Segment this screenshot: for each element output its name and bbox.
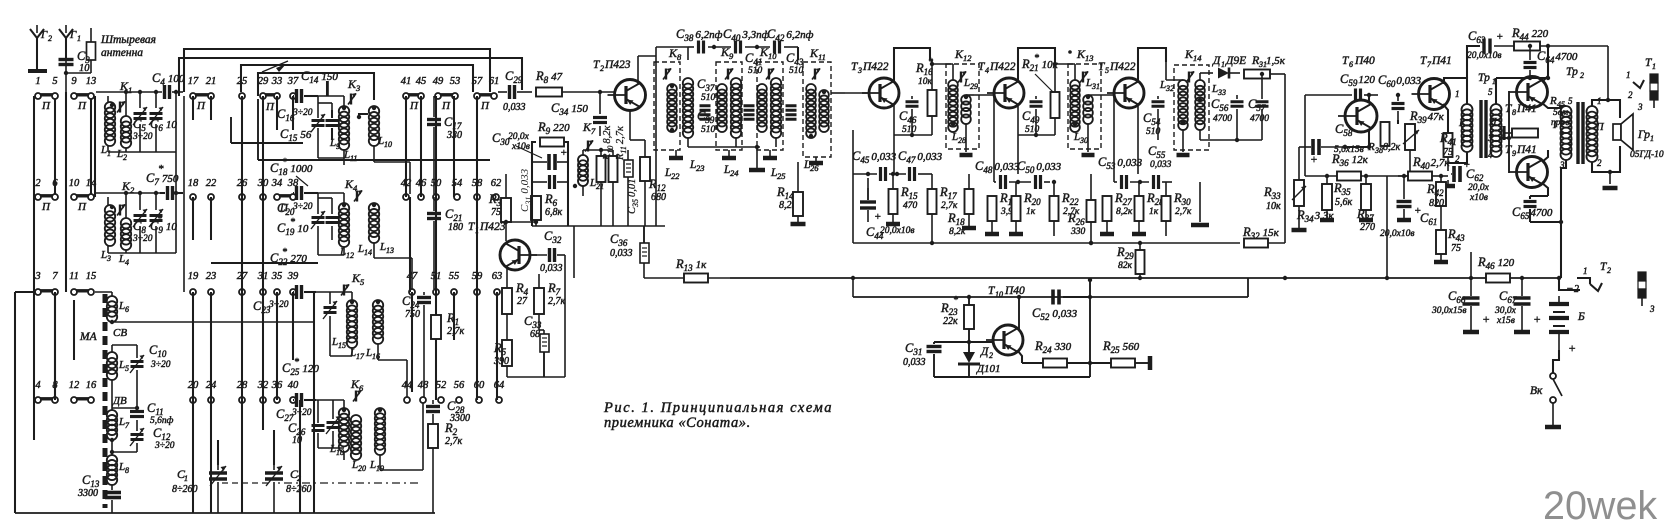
resistor R41 75 xyxy=(1443,104,1448,133)
svg-text:510: 510 xyxy=(902,125,917,135)
wire K3 block xyxy=(318,95,344,97)
wire T4 bottom xyxy=(1018,134,1055,136)
wire T10 base xyxy=(969,341,993,343)
resistor R5 390 xyxy=(502,340,512,366)
ground big right xyxy=(1199,182,1201,222)
svg-text:3÷20: 3÷20 xyxy=(268,300,289,310)
whip antenna symbol xyxy=(90,28,92,42)
transistor T5 P422 xyxy=(1114,78,1144,108)
wire T10 emitter row xyxy=(1018,351,1022,363)
capacitor C21 180 xyxy=(427,212,441,215)
svg-text:9: 9 xyxy=(1512,149,1516,158)
svg-text:C59120: C59120 xyxy=(1340,72,1375,88)
switch arrow K12 xyxy=(958,72,966,83)
transistor T7 P41 xyxy=(1419,79,1450,110)
coil L17 xyxy=(347,300,357,310)
resistor R12 680 xyxy=(640,157,650,181)
trimmer C12 3-20 xyxy=(131,433,144,436)
wire K4 block xyxy=(318,192,344,194)
coil L31 xyxy=(1070,80,1080,90)
wire T9 leads xyxy=(1542,150,1548,162)
svg-text:C910: C910 xyxy=(150,219,177,235)
svg-text:3: 3 xyxy=(857,66,862,75)
transistor T1 P423 xyxy=(500,240,530,270)
svg-text:C43: C43 xyxy=(786,51,804,67)
svg-text:*: * xyxy=(157,214,162,225)
svg-text:R9220: R9220 xyxy=(537,120,570,136)
wire T8 leads xyxy=(1531,77,1533,79)
coil L7 xyxy=(107,410,117,420)
svg-text:0,033: 0,033 xyxy=(503,102,526,113)
svg-text:30,0х15в: 30,0х15в xyxy=(1431,306,1466,316)
svg-text:82к: 82к xyxy=(1118,261,1133,271)
svg-text:2,7к: 2,7к xyxy=(1175,207,1192,217)
svg-text:7: 7 xyxy=(591,126,596,136)
svg-text:R131к: R131к xyxy=(675,257,707,273)
svg-text:Д: Д xyxy=(1212,55,1221,67)
svg-text:П423: П423 xyxy=(479,221,506,233)
svg-text:C17: C17 xyxy=(444,115,462,131)
svg-text:52: 52 xyxy=(436,380,447,391)
svg-text:C12: C12 xyxy=(153,426,171,442)
svg-text:C470,033: C470,033 xyxy=(898,149,943,165)
capacitor C4 100 xyxy=(96,91,162,93)
svg-text:64: 64 xyxy=(494,380,505,391)
svg-text:22: 22 xyxy=(206,178,217,189)
svg-text:10к: 10к xyxy=(918,77,933,87)
coil L12 xyxy=(339,203,349,213)
svg-text:39: 39 xyxy=(287,271,299,282)
svg-text:R44220: R44220 xyxy=(1511,26,1549,42)
rotated capacitor C31 0,033 xyxy=(519,168,533,212)
svg-text:750: 750 xyxy=(405,309,420,320)
svg-text:R2110к: R2110к xyxy=(1021,57,1059,73)
svg-text:Штыревая: Штыревая xyxy=(100,34,156,46)
svg-text:12: 12 xyxy=(963,53,972,63)
wire T3 collector box xyxy=(894,48,930,82)
wire AGC right vertical xyxy=(1089,280,1091,377)
wire C62 ground xyxy=(1441,184,1455,189)
svg-text:26: 26 xyxy=(810,163,819,173)
svg-text:5: 5 xyxy=(52,76,57,87)
svg-text:38: 38 xyxy=(1374,146,1383,155)
svg-text:R46120: R46120 xyxy=(1477,255,1515,271)
coil L29 xyxy=(948,80,958,90)
switch arrow K13 xyxy=(1080,72,1088,83)
svg-text:R112,7к: R112,7к xyxy=(615,126,628,161)
svg-text:C46: C46 xyxy=(899,109,917,125)
svg-text:П41: П41 xyxy=(1516,144,1537,156)
capacitor C30b xyxy=(548,175,551,189)
wire T2 collector to filter xyxy=(655,47,657,56)
trimmer C10 3-20 xyxy=(131,360,144,363)
svg-text:1,5к: 1,5к xyxy=(1266,55,1286,67)
wire AGC bottom xyxy=(934,376,1090,378)
wire secondary to speaker xyxy=(1592,100,1620,118)
resistor R38 8,2k xyxy=(1381,122,1390,146)
coil L21 xyxy=(578,155,588,165)
svg-text:5: 5 xyxy=(1568,96,1573,106)
svg-text:75: 75 xyxy=(1443,147,1453,158)
wires mid column xyxy=(600,150,602,156)
svg-text:Рис. 1. Принципиальная с: Рис. 1. Принципиальная схема xyxy=(603,400,833,416)
svg-text:4700: 4700 xyxy=(1250,114,1269,124)
capacitor C46 510 xyxy=(906,100,919,103)
wire T1 collector xyxy=(505,222,507,241)
wire col17 verticals xyxy=(192,292,194,513)
svg-text:3÷20: 3÷20 xyxy=(132,234,153,244)
transistor T6 P40 xyxy=(1345,100,1377,132)
svg-text:C520,033: C520,033 xyxy=(1032,306,1078,322)
wires T1 cluster xyxy=(506,221,536,223)
wire top frame 1 xyxy=(184,49,490,92)
svg-text:55: 55 xyxy=(449,271,460,282)
svg-text:17: 17 xyxy=(356,352,365,361)
svg-text:20,0х10в: 20,0х10в xyxy=(1380,229,1414,239)
wire Tp1 pin2 xyxy=(1448,152,1467,163)
wire left verticals xyxy=(183,96,185,292)
wire T7 base xyxy=(1397,120,1399,124)
wire T10 collector xyxy=(1017,295,1021,299)
svg-text:22к: 22к xyxy=(943,316,958,327)
svg-text:R27: R27 xyxy=(1114,191,1132,207)
svg-text:390: 390 xyxy=(493,356,509,367)
svg-text:60: 60 xyxy=(474,380,485,391)
svg-text:4700: 4700 xyxy=(1213,114,1232,124)
svg-text:13: 13 xyxy=(86,76,97,87)
svg-text:15: 15 xyxy=(86,271,97,282)
svg-text:510: 510 xyxy=(701,125,716,135)
svg-text:11: 11 xyxy=(350,154,357,163)
svg-text:П422: П422 xyxy=(989,61,1016,73)
coil L2 xyxy=(121,116,131,126)
svg-text:C450,033: C450,033 xyxy=(852,149,897,165)
svg-text:14: 14 xyxy=(364,248,372,257)
trimmer C27 3-20 xyxy=(295,393,298,407)
svg-text:C403,3пф: C403,3пф xyxy=(723,27,770,43)
svg-text:C10: C10 xyxy=(149,343,167,359)
svg-text:3÷20: 3÷20 xyxy=(154,441,175,451)
svg-text:П: П xyxy=(196,100,206,112)
svg-text:П: П xyxy=(1595,122,1605,133)
svg-text:11: 11 xyxy=(69,271,79,282)
transistor T9 P41 xyxy=(1517,157,1548,188)
dashed box K9 xyxy=(716,62,742,150)
svg-text:2: 2 xyxy=(989,351,993,360)
svg-text:21: 21 xyxy=(596,182,604,191)
svg-text:R25560: R25560 xyxy=(1102,339,1140,355)
antenna G1 xyxy=(59,29,66,58)
svg-text:41: 41 xyxy=(401,76,412,87)
svg-text:R15: R15 xyxy=(900,185,918,201)
svg-text:C31: C31 xyxy=(905,341,922,357)
svg-text:11: 11 xyxy=(818,52,826,62)
svg-text:5: 5 xyxy=(1105,66,1109,75)
svg-text:П41: П41 xyxy=(1431,55,1452,67)
coil L10 xyxy=(369,106,379,116)
svg-text:2: 2 xyxy=(1574,284,1579,295)
electrolytic C62 20,0x10v xyxy=(1452,166,1456,182)
svg-text:Тр: Тр xyxy=(1478,72,1490,84)
svg-text:10: 10 xyxy=(768,51,777,61)
svg-text:1к: 1к xyxy=(1149,207,1159,217)
svg-text:х15в: х15в xyxy=(1496,316,1515,326)
resistor R6 6,8k xyxy=(531,196,541,220)
svg-text:8: 8 xyxy=(677,52,682,62)
svg-text:Тр: Тр xyxy=(1566,66,1578,78)
resistor R3 75 xyxy=(501,198,511,222)
svg-text:Д101: Д101 xyxy=(976,363,1001,375)
svg-text:30: 30 xyxy=(1079,136,1088,145)
svg-text:18: 18 xyxy=(336,448,344,457)
resistor R11 2,7k rotated xyxy=(609,156,618,182)
svg-text:4: 4 xyxy=(1568,138,1573,148)
svg-text:1: 1 xyxy=(184,474,188,483)
ground under Tp2 xyxy=(1603,186,1618,191)
wire frame 4 xyxy=(258,73,374,100)
dashed box K14 xyxy=(1174,65,1209,150)
svg-text:R12: R12 xyxy=(648,177,666,193)
capacitor C49 510 xyxy=(1030,100,1043,103)
svg-text:15: 15 xyxy=(338,341,346,350)
svg-text:33: 33 xyxy=(1217,88,1226,97)
svg-text:4: 4 xyxy=(125,258,129,267)
svg-text:20,0х10в: 20,0х10в xyxy=(880,226,914,236)
svg-text:R3947к: R3947к xyxy=(1409,109,1445,125)
svg-text:21: 21 xyxy=(206,76,217,87)
svg-text:R29: R29 xyxy=(1116,245,1134,261)
svg-text:П: П xyxy=(77,100,87,112)
wire tuning verticals xyxy=(217,440,219,465)
svg-text:C500,033: C500,033 xyxy=(1017,159,1062,175)
svg-text:R14: R14 xyxy=(776,185,794,201)
svg-text:R35: R35 xyxy=(1333,181,1351,197)
svg-text:330: 330 xyxy=(1070,227,1086,237)
svg-text:антенна: антенна xyxy=(101,47,143,59)
wire detector bottom xyxy=(1200,139,1262,141)
capacitor C54 510 xyxy=(1152,100,1165,103)
svg-text:32: 32 xyxy=(1165,84,1174,93)
svg-text:7: 7 xyxy=(125,421,130,430)
switch arrow K10 xyxy=(766,69,774,80)
svg-text:3: 3 xyxy=(1637,102,1643,112)
svg-text:1: 1 xyxy=(475,226,479,235)
dashed box K12 xyxy=(946,64,979,149)
svg-text:R1: R1 xyxy=(446,311,459,327)
coil L19 xyxy=(375,408,385,418)
svg-text:1: 1 xyxy=(128,85,132,95)
svg-text:23: 23 xyxy=(696,163,705,173)
capacitor C52 0,033 xyxy=(1051,290,1055,305)
svg-text:*: * xyxy=(953,295,958,306)
svg-text:23: 23 xyxy=(206,271,217,282)
svg-text:20: 20 xyxy=(358,464,366,473)
svg-text:C22270: C22270 xyxy=(270,251,307,267)
svg-text:27: 27 xyxy=(517,296,528,307)
coil L28 xyxy=(961,95,971,105)
svg-text:20,0х10в: 20,0х10в xyxy=(1467,51,1501,61)
wire if bus y174 xyxy=(853,173,877,175)
svg-text:57: 57 xyxy=(472,76,483,87)
svg-text:5: 5 xyxy=(1488,87,1493,97)
wire T4 collector box xyxy=(1018,48,1055,82)
resistor R27 8,2k xyxy=(1103,196,1112,221)
svg-text:C181000: C181000 xyxy=(270,161,313,177)
svg-text:R24330: R24330 xyxy=(1034,339,1072,355)
svg-text:C530,033: C530,033 xyxy=(1098,155,1143,171)
svg-text:R43: R43 xyxy=(1447,227,1465,243)
svg-text:10: 10 xyxy=(69,178,80,189)
resistor R22 2,7k xyxy=(1050,196,1059,221)
coil L32 xyxy=(1178,80,1188,90)
svg-text:1: 1 xyxy=(1221,60,1225,69)
svg-text:П: П xyxy=(409,100,419,112)
svg-text:45: 45 xyxy=(416,76,427,87)
svg-text:C644700: C644700 xyxy=(1537,49,1578,65)
capacitor C3 10 xyxy=(65,58,67,73)
svg-text:+: + xyxy=(560,147,567,159)
svg-text:20,0х: 20,0х xyxy=(508,132,530,142)
svg-text:12: 12 xyxy=(69,380,80,391)
svg-text:3300: 3300 xyxy=(77,488,98,499)
switch K1 contact arrow xyxy=(117,102,125,113)
resistor R43 75 xyxy=(1436,230,1446,254)
wires R9 C30 box xyxy=(532,142,536,226)
coil L11 xyxy=(339,106,349,116)
svg-text:П: П xyxy=(441,100,451,112)
svg-text:2: 2 xyxy=(48,34,52,43)
svg-text:Гр: Гр xyxy=(1637,129,1650,141)
svg-text:R7: R7 xyxy=(547,281,561,297)
svg-text:1к: 1к xyxy=(1026,207,1036,217)
wire tuning gang dashed xyxy=(222,482,270,484)
resistor R42 820 xyxy=(1436,182,1446,206)
svg-text:3: 3 xyxy=(34,271,40,282)
svg-text:C600,033: C600,033 xyxy=(1378,73,1422,89)
svg-text:61: 61 xyxy=(489,76,500,87)
trimmer C6 10 xyxy=(150,112,163,115)
coil L20 xyxy=(351,415,361,425)
ferrite rod MA xyxy=(103,294,108,508)
antenna G2 xyxy=(30,29,37,71)
dashed box K10 xyxy=(757,62,783,150)
svg-text:МА: МА xyxy=(79,331,98,343)
wire top frame 2 xyxy=(179,58,522,96)
svg-text:13: 13 xyxy=(1085,53,1094,63)
resistor R4 27 xyxy=(502,288,512,314)
svg-text:П40: П40 xyxy=(1354,55,1375,67)
svg-text:17: 17 xyxy=(188,76,199,87)
svg-text:Вк: Вк xyxy=(1530,385,1543,397)
wire K12 xyxy=(952,64,954,80)
wire bus y243 xyxy=(853,242,1240,244)
svg-text:5: 5 xyxy=(125,364,129,373)
svg-text:2,7к: 2,7к xyxy=(445,436,463,447)
wire T3 bottom xyxy=(894,134,932,136)
dashed box K8 xyxy=(654,62,680,150)
svg-text:0,033: 0,033 xyxy=(610,248,633,259)
svg-text:+: + xyxy=(1310,154,1318,166)
wire T6 collector xyxy=(1368,95,1370,103)
svg-text:1: 1 xyxy=(1652,62,1656,71)
svg-text:R: R xyxy=(1549,95,1557,107)
svg-text:56: 56 xyxy=(454,380,465,391)
svg-text:510: 510 xyxy=(748,66,763,76)
svg-text:25: 25 xyxy=(777,171,786,181)
svg-text:4: 4 xyxy=(35,380,41,391)
svg-text:3: 3 xyxy=(1487,133,1493,143)
wire bottom bus xyxy=(15,512,435,514)
capacitor C35 0,01 rotated xyxy=(624,160,633,177)
wire T5 bottom xyxy=(1137,135,1139,174)
svg-text:Г: Г xyxy=(69,29,77,41)
svg-text:П: П xyxy=(265,101,275,113)
svg-text:3: 3 xyxy=(355,83,360,93)
coil L5 xyxy=(107,352,117,362)
svg-text:5,6к: 5,6к xyxy=(1335,197,1353,208)
svg-text:+: + xyxy=(874,211,881,223)
coil L33 xyxy=(1195,80,1205,90)
wire col25 verticals xyxy=(241,96,243,197)
trimmer C9 10 xyxy=(150,214,163,217)
svg-text:*: * xyxy=(282,157,287,168)
coil L3 xyxy=(107,197,109,205)
svg-text:29: 29 xyxy=(970,82,978,91)
svg-text:0,033: 0,033 xyxy=(903,357,926,368)
wire frame 3 with arrow xyxy=(241,65,473,92)
svg-text:C32: C32 xyxy=(544,229,562,245)
resistor R17 2,7k xyxy=(928,189,937,214)
switch arrow K9 xyxy=(725,69,733,80)
svg-text:63: 63 xyxy=(492,271,503,282)
wire K13 xyxy=(1074,64,1076,80)
svg-text:3: 3 xyxy=(1649,304,1655,314)
svg-text:8,2к: 8,2к xyxy=(1383,142,1401,153)
wire T8 T9 base link xyxy=(1508,91,1510,173)
svg-text:10: 10 xyxy=(995,290,1003,299)
resistor R28 1k xyxy=(1135,196,1144,221)
svg-text:4: 4 xyxy=(1488,150,1493,160)
wire K6 block xyxy=(316,399,344,401)
resistor R19 3,9k xyxy=(988,196,997,221)
svg-text:C11: C11 xyxy=(147,401,164,417)
wire bus y278 right xyxy=(1387,277,1486,279)
resistor R1 2,7k xyxy=(431,315,441,339)
svg-text:C310,033: C310,033 xyxy=(519,168,533,212)
transistor T8 P41 xyxy=(1517,77,1548,108)
svg-text:приемника «Соната».: приемника «Соната». xyxy=(604,415,751,431)
svg-text:П: П xyxy=(1488,117,1498,128)
grounds under filter xyxy=(675,150,677,157)
svg-text:2,7к: 2,7к xyxy=(941,201,958,211)
svg-text:6: 6 xyxy=(1349,60,1353,69)
svg-text:35: 35 xyxy=(271,271,283,282)
svg-text:*: * xyxy=(282,247,287,258)
svg-text:2: 2 xyxy=(1607,266,1611,275)
svg-text:C34150: C34150 xyxy=(551,101,588,117)
svg-text:16: 16 xyxy=(86,380,97,391)
svg-text:R3: R3 xyxy=(488,192,502,208)
svg-text:8: 8 xyxy=(125,466,129,475)
coil L24 tank xyxy=(731,78,741,88)
dashed box K11 xyxy=(803,62,831,157)
svg-text:5,6пф: 5,6пф xyxy=(150,415,174,426)
svg-text:R847: R847 xyxy=(535,69,563,85)
trimmer C5 3-20 xyxy=(134,112,147,115)
svg-text:*: * xyxy=(158,163,164,175)
svg-text:2,7к: 2,7к xyxy=(548,296,566,307)
switch arrow K11 xyxy=(812,69,820,80)
